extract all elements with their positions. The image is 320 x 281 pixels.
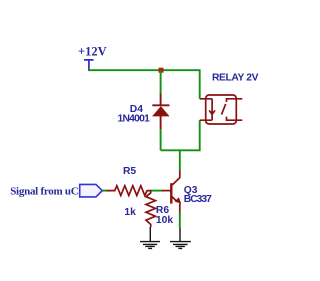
wire emitter down — [179, 212, 181, 228]
svg-text:RELAY 2V: RELAY 2V — [212, 73, 259, 84]
relay switch pins — [227, 99, 243, 120]
resistor R6 — [146, 191, 155, 228]
transistor Q3 base bar — [170, 183, 172, 203]
wire junction to diode — [160, 70, 162, 94]
wire R5 to base — [150, 190, 163, 192]
relay coil pins — [200, 99, 212, 120]
diode D4 triangle — [152, 106, 170, 116]
port symbol — [80, 184, 103, 197]
wire top rail — [88, 69, 200, 71]
wire bottom rail — [161, 149, 200, 151]
svg-text:10k: 10k — [156, 215, 173, 226]
power bar symbol — [84, 60, 94, 70]
relay K box — [206, 95, 237, 124]
ground below R6 — [140, 227, 160, 248]
wire port to R5 — [102, 190, 108, 192]
svg-text:R5: R5 — [123, 166, 136, 177]
diode D4 top lead — [160, 94, 162, 106]
diode D4 bottom lead — [160, 116, 162, 129]
relay switch lever — [222, 104, 226, 115]
transistor Q3 base pin — [162, 190, 171, 192]
diode D4 cathode bar — [152, 104, 169, 106]
svg-text:1k: 1k — [124, 207, 136, 218]
relay coil arrow — [209, 110, 215, 114]
wire relay coil top — [199, 69, 201, 99]
svg-text:+12V: +12V — [78, 44, 107, 58]
wire collector to rail — [179, 150, 181, 171]
transistor Q3 collector pin — [172, 171, 180, 185]
transistor Q3 emitter pin — [172, 197, 180, 213]
svg-text:BC337: BC337 — [184, 194, 212, 205]
junction dot — [159, 68, 164, 73]
ground below emitter — [170, 228, 191, 248]
wire relay coil bottom — [199, 120, 201, 151]
svg-text:Signal from uC: Signal from uC — [10, 186, 79, 198]
transistor Q3 emitter arrow — [175, 197, 182, 204]
wire diode to bottom rail — [160, 129, 162, 150]
resistor R5 — [107, 186, 151, 196]
svg-text:1N4001: 1N4001 — [118, 114, 151, 125]
